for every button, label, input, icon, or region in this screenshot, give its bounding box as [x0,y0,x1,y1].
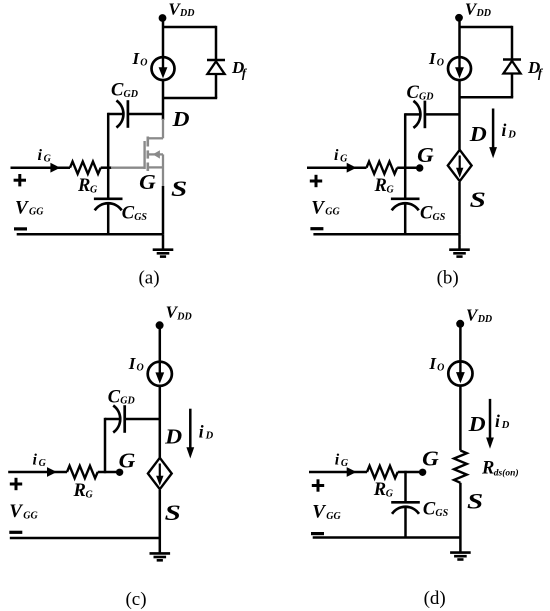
caption (b) [437,268,459,289]
ground (b) [449,234,470,256]
svg-text:G: G [39,458,47,469]
svg-text:i: i [335,451,340,468]
wire bottom rail (c) [10,537,160,540]
label VDD (b) [465,0,491,19]
arrow iG (d) [347,467,357,477]
svg-text:GG: GG [23,511,38,522]
source VGG minus (a) [14,227,27,230]
label iD (d) [495,411,510,431]
resistor RG (c) [67,466,98,478]
wire iG input (d) [309,471,367,474]
wire VDD to current source (a) [162,18,165,58]
node G dot (d) [419,469,426,476]
svg-text:D: D [205,430,214,441]
label CGD (a) [111,81,138,101]
label D (a) [171,107,189,131]
caption (d) [424,588,446,609]
wire CGS to rail (d) [404,507,407,538]
transistor Q1 MOSFET (a) [145,119,163,187]
wire bottom rail (b) [313,233,459,236]
wire drain vertical (a) [162,80,165,121]
source VGG plus (c) [10,478,22,490]
svg-text:S: S [165,500,181,525]
node VDD (a) [159,14,167,22]
svg-text:i: i [38,147,43,164]
svg-text:ds(on): ds(on) [494,467,519,478]
wire CGD left (b) [405,113,420,116]
wire diode to drain (a) [163,74,217,98]
wire RG to gate (d) [398,471,422,474]
svg-text:DD: DD [476,8,491,19]
svg-text:G: G [86,490,94,501]
label RG (b) [374,176,395,196]
wire source to rail (b) [458,182,461,234]
svg-text:G: G [90,184,98,195]
svg-text:D: D [507,129,516,140]
label G (a) [139,170,156,194]
label CGS (a) [122,204,148,224]
label iG (d) [335,451,349,469]
arrow iG (c) [47,467,57,477]
label VGG (d) [312,501,341,522]
svg-text:C: C [111,81,124,101]
current source IO (b) [448,57,471,80]
label Df (b) [527,58,544,80]
capacitor CGD (b) [413,101,425,129]
source VGG plus (b) [310,175,322,187]
svg-text:(c): (c) [125,589,146,610]
wire bottom rail (d) [313,536,461,539]
label IO (a) [132,49,148,68]
svg-text:G: G [387,184,395,195]
svg-text:V: V [311,197,325,218]
label D (b) [469,122,487,146]
svg-text:DD: DD [179,8,194,19]
capacitor CGS (d) [391,502,420,514]
svg-text:i: i [33,451,38,468]
label iD (b) [502,120,517,140]
svg-text:D: D [501,420,510,431]
capacitor CGS (b) [391,199,420,211]
dependent source (c) [148,458,172,489]
resistor RG (a) [70,162,101,174]
label S (b) [470,187,486,212]
svg-text:O: O [437,57,444,68]
ground (c) [150,538,171,560]
label IO (c) [128,354,144,373]
label iG (a) [38,147,52,165]
svg-text:O: O [137,363,144,374]
svg-text:DD: DD [176,312,191,323]
svg-text:C: C [423,500,436,520]
svg-text:O: O [140,57,147,68]
label D (c) [164,425,182,449]
wire source to rail (d) [459,483,462,538]
wire RG to node (a) [101,166,112,169]
node G dot (b) [416,164,423,171]
label VGG (a) [15,197,44,218]
label CGS (d) [423,500,449,520]
wire gate lead gray (a) [111,167,145,169]
svg-text:GG: GG [29,207,44,218]
svg-text:G: G [422,446,439,470]
svg-text:GG: GG [326,511,341,522]
wire drain vertical (c) [159,386,162,459]
label S (a) [171,176,187,201]
label IO (d) [428,354,444,373]
node VDD (d) [456,320,464,328]
label VDD (a) [168,0,194,19]
svg-text:R: R [481,458,494,478]
label CGS (b) [420,204,446,224]
wire bottom rail (a) [17,233,163,236]
resistor Rds(on) (d) [454,451,467,483]
node G dot (c) [116,469,123,476]
arrow iD (b) [489,109,497,159]
dependent source (b) [448,150,472,181]
wire gate-node vertical (c) [104,418,107,473]
label D (d) [468,412,486,436]
wire gate-node vertical (b) [404,113,407,198]
wire RG to gate (b) [397,166,418,169]
label CGD (c) [108,387,135,407]
wire CGD right (a) [128,113,163,116]
wire top branch (a) [163,26,216,60]
wire CGS to rail (b) [404,203,407,234]
label Rds(on) (d) [481,458,519,478]
wire diode to drain (b) [460,74,514,98]
label VDD (c) [166,303,192,323]
wire drain vertical (b) [458,80,461,150]
diode Df (a) [207,60,225,74]
arrow iG (a) [50,163,60,173]
label G (b) [417,143,434,167]
label VGG (c) [9,501,38,522]
label S (d) [467,488,483,513]
svg-text:GS: GS [435,508,448,519]
svg-text:C: C [122,204,135,224]
wire VDD to current source (c) [159,325,162,362]
svg-text:i: i [199,421,204,441]
capacitor CGD (c) [113,405,125,433]
label G (c) [119,448,136,472]
svg-text:S: S [467,488,483,513]
diode Df (b) [503,60,521,74]
resistor RG (d) [367,466,398,478]
svg-text:(d): (d) [424,588,446,609]
svg-text:V: V [9,501,23,522]
wire top branch (b) [460,26,513,60]
label RG (a) [77,176,98,196]
svg-text:GG: GG [325,207,340,218]
svg-text:G: G [386,489,394,500]
wire CGD left (c) [105,418,120,421]
label G (d) [422,446,439,470]
caption (a) [138,268,159,289]
wire CGD right (b) [425,113,460,116]
wire gate-node vertical (a) [107,113,110,198]
svg-text:GS: GS [134,212,147,223]
wire iG input (b) [307,166,367,169]
svg-text:(b): (b) [437,268,459,289]
svg-text:GD: GD [124,89,138,100]
label RG (c) [73,481,94,501]
label iD (c) [199,421,214,441]
svg-text:D: D [171,107,189,131]
svg-text:GD: GD [120,396,134,407]
label iG (c) [33,451,47,469]
svg-text:i: i [334,147,339,164]
node VDD (c) [156,321,164,329]
source VGG minus (b) [310,227,323,230]
svg-text:(a): (a) [138,268,159,289]
wire source to rail (a) [162,186,165,234]
svg-text:C: C [108,387,121,407]
svg-text:G: G [341,458,349,469]
wire source to rail (c) [159,490,162,538]
svg-text:G: G [44,153,52,164]
caption (c) [125,589,146,610]
svg-text:R: R [374,176,387,196]
node VDD (b) [455,14,463,22]
arrow iD (c) [186,409,194,459]
source VGG minus (d) [311,532,324,535]
svg-text:G: G [119,448,136,472]
svg-text:GS: GS [433,212,446,223]
current source IO (a) [152,57,175,80]
svg-text:D: D [468,412,486,436]
label CGD (b) [407,83,434,103]
svg-text:G: G [417,143,434,167]
svg-text:G: G [139,170,156,194]
wire CGS to rail (a) [107,203,110,234]
resistor RG (b) [367,162,398,174]
label VDD (d) [466,305,492,325]
label iG (b) [334,147,348,165]
wire VDD to current source (d) [459,324,462,362]
svg-text:R: R [373,480,386,500]
arrow iD (d) [486,399,494,449]
svg-text:S: S [171,176,187,201]
source VGG plus (a) [14,174,26,186]
ground (d) [450,538,471,560]
source VGG plus (d) [312,479,324,491]
arrow iG (b) [347,163,357,173]
svg-text:R: R [77,176,90,196]
svg-text:S: S [470,187,486,212]
wire CGD right (c) [125,418,160,421]
svg-text:R: R [73,481,86,501]
wire iG input (a) [11,166,71,169]
current source IO (c) [148,362,172,386]
wire iG input (c) [8,471,67,474]
svg-text:V: V [312,501,326,522]
wire gate-node vertical (d) [404,471,407,502]
wire RG to gate (c) [98,471,119,474]
svg-text:GD: GD [419,91,433,102]
svg-text:O: O [437,362,444,373]
label RG (d) [373,480,394,500]
svg-text:D: D [164,425,182,449]
wire VDD to current source (b) [458,18,461,58]
ground (a) [153,234,174,256]
svg-text:i: i [502,120,507,140]
label IO (b) [428,49,444,68]
label S (c) [165,500,181,525]
svg-text:G: G [340,153,348,164]
svg-text:V: V [15,197,29,218]
label VGG (b) [311,197,340,218]
source VGG minus (c) [9,531,22,534]
svg-text:i: i [495,411,500,431]
svg-text:C: C [420,204,433,224]
label Df (a) [231,58,248,80]
capacitor CGD (a) [116,100,128,128]
capacitor CGS (a) [94,199,123,211]
wire CGD left (a) [108,113,123,116]
current source IO (d) [448,361,472,385]
svg-text:C: C [407,83,420,103]
wire drain vertical (d) [459,385,462,451]
svg-text:D: D [469,122,487,146]
svg-text:DD: DD [477,314,492,325]
